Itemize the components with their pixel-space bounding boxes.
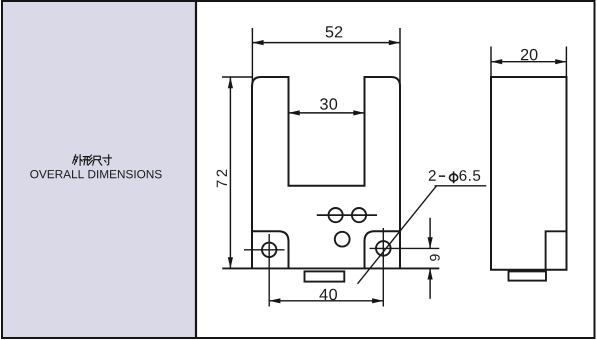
dimension 40 arrows	[269, 298, 383, 303]
dimension 20 line	[491, 61, 566, 63]
dimension 20 arrows	[491, 59, 566, 64]
dimension 30 arrows	[289, 110, 365, 115]
left mounting ear	[252, 231, 289, 268]
dimension 40 line	[269, 300, 383, 302]
left hole crosshair	[244, 234, 285, 307]
left mounting hole	[262, 243, 276, 257]
dimension 30 line	[289, 112, 365, 114]
label 外形尺寸 (drawn glyphs)	[73, 155, 112, 166]
寸	[103, 155, 112, 165]
front view body outline	[252, 77, 400, 268]
dimension 52 arrows	[252, 40, 400, 45]
label OVERALL DIMENSIONS	[30, 170, 161, 178]
dimension 40 text	[319, 289, 337, 300]
right mounting ear	[365, 231, 401, 268]
dimension 52 line	[252, 42, 400, 44]
leader 2-phi6.5 text	[429, 170, 436, 181]
bottom baseline (extended both sides)	[222, 267, 439, 269]
right hole crosshair	[370, 228, 440, 307]
terminal circles pair	[329, 208, 367, 222]
side view step	[546, 231, 567, 269]
front bottom tab	[305, 271, 345, 281]
dimension 20 text	[521, 49, 538, 60]
尺	[93, 156, 102, 165]
side view outline	[491, 77, 567, 270]
形	[83, 155, 93, 165]
leader horizontal line	[435, 185, 487, 187]
leader 6.5 text	[459, 170, 480, 181]
dimension 52 extension lines	[252, 28, 400, 86]
外	[73, 155, 83, 166]
dimension 9 upper line and arrow	[429, 218, 431, 249]
dimension 30 text	[320, 98, 337, 109]
right mounting hole	[376, 241, 391, 256]
phi symbol	[450, 171, 458, 183]
dimension 9 text	[430, 254, 440, 260]
title panel background	[3, 2, 195, 337]
panel separator line	[195, 1, 197, 338]
dimension 9 lower line and arrow	[429, 268, 431, 298]
side view bottom tab	[509, 271, 547, 280]
indicator circle	[335, 232, 350, 247]
dimension 72 text	[217, 170, 227, 188]
dimension 72 top extension	[222, 76, 253, 78]
dimension 52 text	[326, 26, 343, 37]
dimension 72 line	[229, 77, 231, 268]
leader diagonal line	[358, 186, 437, 284]
dimension 20 extension lines	[491, 47, 566, 79]
terminal line	[317, 214, 377, 216]
leader dash	[439, 175, 445, 177]
dimension 72 arrows	[228, 77, 233, 268]
